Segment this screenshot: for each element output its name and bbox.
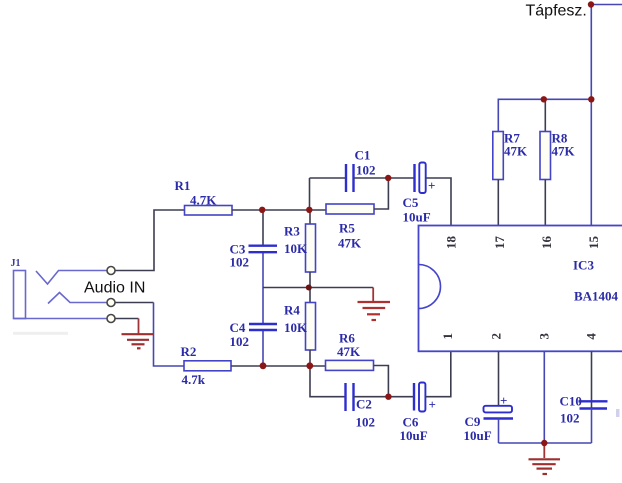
mid rail wire	[263, 287, 373, 289]
svg-text:102: 102	[356, 415, 376, 430]
svg-text:47K: 47K	[552, 144, 576, 159]
svg-text:17: 17	[492, 236, 507, 250]
svg-text:47K: 47K	[504, 144, 528, 159]
svg-text:C5: C5	[403, 195, 419, 210]
resistor R2	[181, 344, 232, 387]
pin 4 number	[583, 333, 598, 340]
terminal sleeve	[107, 315, 115, 323]
power rail Tapfesz	[526, 3, 622, 100]
terminal ring	[107, 299, 115, 307]
junction node B2	[306, 362, 313, 369]
bottom rail wire	[499, 442, 592, 444]
svg-text:C10: C10	[560, 394, 582, 409]
svg-text:10uF: 10uF	[403, 210, 431, 225]
resistor R7	[493, 131, 528, 226]
wire C10 down	[591, 408, 593, 443]
svg-text:R1: R1	[175, 178, 191, 193]
junction supply	[588, 1, 594, 7]
pin 17 number	[492, 236, 507, 250]
wire tip to R1	[115, 210, 185, 271]
wire R6 down to C2 out	[374, 366, 389, 397]
resistor R3	[284, 210, 316, 288]
wire sleeve to ground	[115, 318, 139, 320]
svg-text:4: 4	[583, 333, 598, 340]
svg-text:C1: C1	[355, 148, 371, 163]
svg-text:Audio IN: Audio IN	[84, 280, 145, 297]
J1 label	[11, 258, 21, 269]
junction node A	[259, 207, 265, 213]
junction bottom rail	[541, 440, 547, 446]
svg-text:IC3: IC3	[573, 258, 594, 273]
resistor R4	[284, 288, 316, 367]
capacitor C4	[230, 320, 278, 349]
svg-text:18: 18	[444, 236, 459, 250]
wire R5 up to C1 out	[374, 178, 388, 209]
capacitor C1	[346, 148, 376, 193]
wire C9 down	[498, 418, 500, 443]
clipped cap at right edge	[616, 409, 620, 417]
svg-text:102: 102	[356, 163, 376, 178]
svg-text:47K: 47K	[337, 344, 361, 359]
node A up link	[309, 178, 311, 210]
sub rail down link	[310, 366, 345, 397]
svg-text:+: +	[429, 397, 436, 412]
svg-text:C2: C2	[356, 397, 372, 412]
pin 15 number	[586, 236, 601, 250]
resistor R8	[540, 99, 576, 225]
capacitor C3	[230, 242, 278, 270]
wire C1 left	[310, 177, 346, 179]
pin 16 number	[539, 236, 554, 250]
terminal tip	[107, 267, 115, 275]
resistor R5	[326, 204, 374, 251]
svg-text:3: 3	[537, 333, 552, 340]
IC U IC3 BA1404	[419, 226, 622, 352]
resistor R6	[326, 331, 374, 371]
junction node B	[260, 362, 267, 369]
ground mid	[358, 288, 391, 321]
pin 3 number	[537, 333, 552, 340]
svg-text:1: 1	[440, 333, 455, 340]
wire C5 to pin18	[426, 178, 452, 226]
junction C1 out	[385, 175, 391, 181]
junction pin15 top	[588, 96, 594, 102]
capacitor C3 vertical link	[262, 210, 264, 366]
svg-text:4.7K: 4.7K	[190, 193, 217, 208]
pin 2 number	[489, 333, 504, 340]
capacitor C10	[560, 394, 608, 426]
svg-text:C9: C9	[465, 414, 481, 429]
svg-text:102: 102	[230, 334, 250, 349]
svg-text:R2: R2	[181, 344, 197, 359]
svg-text:102: 102	[560, 411, 580, 426]
junction C2 out	[385, 394, 391, 400]
ground at jack	[122, 319, 154, 349]
faint erased mark	[13, 332, 68, 335]
capacitor C6 electrolytic	[400, 383, 436, 444]
svg-text:10K: 10K	[284, 241, 308, 256]
svg-text:4.7k: 4.7k	[182, 372, 206, 387]
junction R8 top	[541, 96, 547, 102]
capacitor C9 electrolytic	[464, 393, 514, 443]
resistor R1	[175, 178, 233, 215]
svg-text:R4: R4	[284, 303, 300, 318]
Audio IN label	[84, 280, 145, 297]
wire R2 to node B	[231, 365, 326, 367]
svg-text:15: 15	[586, 236, 601, 250]
wire C1 to C5	[354, 177, 415, 179]
svg-text:J1: J1	[11, 258, 21, 269]
jack tip contact	[36, 271, 107, 285]
wire pin3 down	[543, 351, 545, 443]
wire pin2 down	[498, 351, 500, 406]
wire pin4 down	[591, 351, 593, 408]
svg-text:Tápfesz.: Tápfesz.	[526, 3, 587, 20]
svg-text:C4: C4	[230, 320, 246, 335]
svg-text:16: 16	[539, 236, 554, 250]
svg-text:10K: 10K	[284, 320, 308, 335]
pin 1 number	[440, 333, 455, 340]
svg-text:2: 2	[489, 333, 504, 340]
svg-text:R3: R3	[284, 224, 300, 239]
wire pin15	[590, 99, 592, 225]
capacitor C2	[346, 383, 376, 430]
wire ring down to R2	[115, 303, 184, 367]
wire C6 to pin1	[425, 351, 451, 396]
junction node A2	[306, 207, 312, 213]
svg-text:10uF: 10uF	[464, 428, 492, 443]
wire R1 to node A	[232, 209, 326, 211]
svg-text:+: +	[500, 393, 507, 408]
pin 18 number	[444, 236, 459, 250]
svg-text:+: +	[428, 178, 435, 193]
svg-text:10uF: 10uF	[400, 428, 428, 443]
svg-text:102: 102	[230, 255, 250, 270]
svg-text:47K: 47K	[338, 236, 362, 251]
ground bottom	[529, 443, 561, 474]
capacitor C5 electrolytic	[403, 163, 436, 225]
svg-text:BA1404: BA1404	[574, 289, 619, 304]
connector J1 body	[14, 271, 26, 319]
wire C2 to C6	[354, 396, 414, 398]
svg-text:R5: R5	[339, 221, 355, 236]
top rail wire	[498, 99, 591, 131]
jack ring contact	[48, 293, 107, 304]
junction mid rail	[306, 285, 312, 291]
jack sleeve line	[14, 318, 108, 320]
